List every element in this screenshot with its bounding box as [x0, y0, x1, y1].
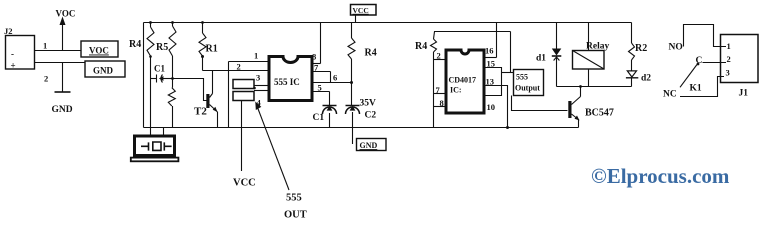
- svg-text:C1: C1: [313, 113, 325, 123]
- svg-text:GND: GND: [93, 66, 114, 76]
- wire 555 OUT lead diagonal: [256, 104, 289, 191]
- contact C wire: [703, 62, 727, 64]
- svg-text:GND: GND: [52, 105, 73, 115]
- svg-text:3: 3: [726, 68, 730, 78]
- diode d2: [631, 60, 633, 71]
- resistor R4: [150, 23, 152, 28]
- svg-text:VOC: VOC: [89, 46, 109, 56]
- svg-text:R5: R5: [156, 42, 168, 53]
- svg-text:3: 3: [256, 73, 260, 83]
- svg-text:d1: d1: [536, 54, 546, 64]
- transistor T2: [206, 94, 209, 108]
- switch arm K1: [680, 65, 697, 88]
- contact NC wire: [680, 77, 724, 97]
- svg-text:555 IC: 555 IC: [274, 77, 300, 87]
- svg-text:J2: J2: [4, 26, 13, 36]
- label box 555 Output: [514, 70, 544, 96]
- wire 555 pin 3: [254, 85, 269, 87]
- svg-text:R1: R1: [206, 44, 218, 55]
- IC U2 CD4017: [446, 50, 484, 113]
- svg-text:-: -: [11, 49, 14, 59]
- svg-text:K1: K1: [690, 84, 702, 94]
- svg-text:16: 16: [485, 46, 494, 56]
- contact NO wire: [684, 25, 727, 47]
- svg-text:J1: J1: [739, 89, 749, 99]
- svg-text:8: 8: [312, 52, 316, 62]
- svg-text:d2: d2: [641, 74, 651, 84]
- component box lower (pin4): [233, 92, 254, 101]
- wire cd4017 pin 15: [484, 68, 502, 96]
- svg-text:BC547: BC547: [585, 108, 614, 119]
- connector J2: [6, 36, 35, 70]
- svg-text:15: 15: [487, 59, 496, 69]
- wire J2 pin 2: [35, 62, 86, 64]
- wire R4 to pin6/C2: [351, 59, 353, 106]
- svg-text:Relay: Relay: [586, 42, 609, 52]
- svg-text:1: 1: [727, 41, 731, 51]
- IR sensor box: [135, 136, 175, 156]
- svg-text:13: 13: [486, 77, 495, 87]
- diode d1: [556, 23, 558, 49]
- wire 555 pin 4: [254, 90, 269, 92]
- svg-text:2: 2: [44, 74, 48, 84]
- transistor Q1 BC547: [568, 101, 571, 118]
- resistor R5: [172, 23, 174, 27]
- wire cd4017 pin 2: [434, 59, 447, 61]
- wire C2 to GND: [352, 112, 354, 144]
- svg-text:35V: 35V: [360, 99, 377, 109]
- net label box VOC: [81, 41, 118, 57]
- svg-text:+: +: [11, 61, 16, 71]
- svg-text:VCC: VCC: [233, 178, 256, 189]
- wire divider to ground rail: [172, 106, 174, 128]
- svg-text:2: 2: [727, 54, 731, 64]
- wire VCC top rail: [144, 22, 632, 24]
- wire J2 pin 1: [35, 50, 82, 52]
- svg-text:1: 1: [254, 51, 258, 61]
- svg-text:©Elprocus.com: ©Elprocus.com: [591, 164, 730, 188]
- svg-text:NO: NO: [669, 43, 683, 53]
- svg-text:R4: R4: [415, 41, 427, 52]
- wire sensor right lead: [163, 128, 165, 137]
- wire collector bus: [557, 86, 632, 88]
- svg-text:1: 1: [43, 41, 47, 51]
- ground symbol: [62, 63, 64, 93]
- wire 555 pin 1: [229, 61, 270, 63]
- connector J1: [721, 35, 759, 83]
- gnd label box: [357, 139, 387, 151]
- wire cd4017 left bus: [433, 52, 435, 128]
- wire 555 pin 2: [203, 70, 270, 72]
- svg-text:R4: R4: [129, 39, 141, 50]
- resistor R2: [631, 23, 633, 44]
- svg-text:C1: C1: [154, 64, 165, 74]
- svg-text:GND: GND: [360, 141, 378, 150]
- wire cd4017 pin 13: [484, 86, 508, 128]
- wire VCC lead down: [241, 101, 243, 172]
- wire R4 net to output box: [510, 32, 512, 73]
- sensor base plate: [131, 158, 179, 162]
- wire cd4017 pin 16: [484, 57, 497, 59]
- svg-text:555: 555: [286, 193, 302, 204]
- wire to BC547 base: [512, 96, 568, 111]
- svg-text:C2: C2: [365, 111, 377, 121]
- svg-text:6: 6: [333, 73, 337, 83]
- net label box GND: [85, 61, 125, 77]
- capacitor C1: [151, 78, 157, 80]
- IC U1 555: [269, 57, 312, 101]
- capacitor C1 (555): [323, 105, 337, 107]
- wire cd4017 pin 8: [434, 106, 447, 108]
- component box upper (pin3): [233, 80, 254, 89]
- svg-text:2: 2: [437, 51, 441, 61]
- wire R5 bottom junction: [172, 56, 174, 88]
- resistor divider lower: [168, 88, 175, 106]
- node VOC arrow: [62, 24, 64, 51]
- wire 555 pin 8: [320, 23, 322, 64]
- svg-text:555: 555: [516, 73, 528, 82]
- resistor R4 (555): [351, 23, 353, 39]
- power label box VCC: [351, 5, 377, 16]
- svg-text:5: 5: [318, 83, 322, 93]
- svg-text:CD4017: CD4017: [449, 76, 477, 85]
- wire left edge vertical: [143, 23, 145, 128]
- svg-text:T2: T2: [194, 106, 207, 118]
- svg-text:VCC: VCC: [353, 6, 369, 15]
- wire 555 pin 5: [312, 91, 330, 93]
- wire R1 bottom to pin2 net: [202, 56, 204, 71]
- svg-text:10: 10: [487, 102, 496, 112]
- svg-text:8: 8: [440, 98, 444, 108]
- resistor R1: [202, 23, 204, 34]
- svg-text:2: 2: [237, 61, 241, 71]
- svg-text:VOC: VOC: [56, 9, 76, 19]
- wire T2 base: [173, 79, 207, 101]
- wire 555 pin 7: [312, 71, 331, 73]
- wire cd4017 pin 7: [434, 93, 447, 95]
- svg-text:NC: NC: [663, 90, 677, 100]
- wire ground bottom rail: [144, 127, 579, 129]
- svg-text:OUT: OUT: [284, 210, 307, 221]
- capacitor C2: [346, 105, 360, 107]
- svg-text:IC:: IC:: [450, 86, 462, 95]
- wire R4 bottom to sensor: [150, 56, 152, 136]
- svg-text:Output: Output: [515, 84, 540, 93]
- relay K1 coil: [588, 23, 590, 51]
- svg-text:R2: R2: [635, 43, 647, 54]
- wire 555 pin 6: [312, 82, 352, 84]
- svg-text:R4: R4: [365, 48, 377, 59]
